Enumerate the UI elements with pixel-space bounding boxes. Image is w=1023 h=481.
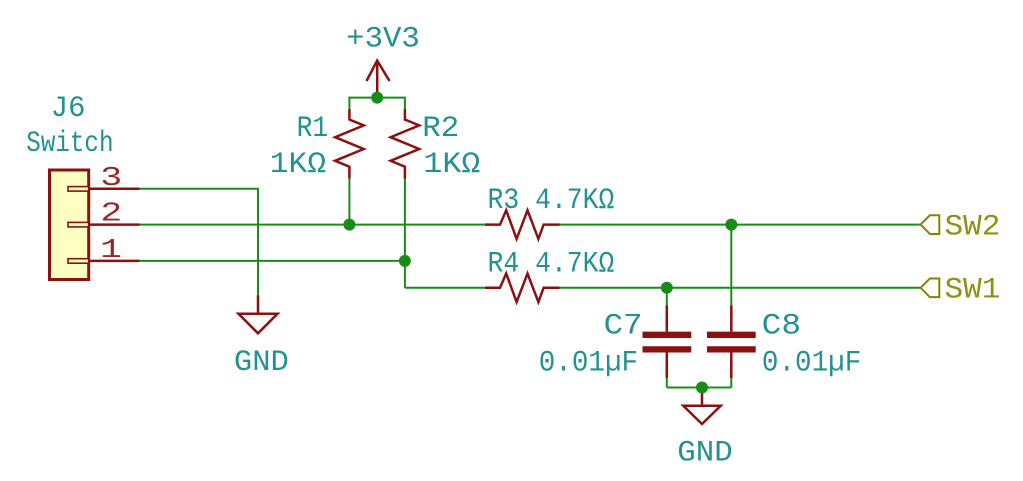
svg-text:1KΩ: 1KΩ xyxy=(423,148,480,182)
svg-text:1KΩ: 1KΩ xyxy=(270,148,326,182)
svg-text:SW2: SW2 xyxy=(945,210,1001,244)
svg-text:2: 2 xyxy=(100,200,122,230)
svg-text:1: 1 xyxy=(100,236,122,266)
svg-text:SW1: SW1 xyxy=(945,274,1001,308)
svg-text:R2: R2 xyxy=(422,112,459,146)
svg-text:3: 3 xyxy=(100,164,122,194)
svg-text:0.01µF: 0.01µF xyxy=(762,347,861,381)
svg-text:J6: J6 xyxy=(51,92,86,126)
svg-text:C7: C7 xyxy=(604,310,643,344)
svg-text:R3 4.7KΩ: R3 4.7KΩ xyxy=(488,184,615,218)
svg-text:Switch: Switch xyxy=(26,127,113,161)
svg-text:+3V3: +3V3 xyxy=(346,23,420,57)
svg-text:R4 4.7KΩ: R4 4.7KΩ xyxy=(488,248,615,282)
svg-text:GND: GND xyxy=(234,346,289,380)
svg-text:R1: R1 xyxy=(297,112,329,146)
svg-text:C8: C8 xyxy=(762,310,801,344)
svg-text:0.01µF: 0.01µF xyxy=(539,347,638,381)
svg-text:GND: GND xyxy=(677,436,732,470)
